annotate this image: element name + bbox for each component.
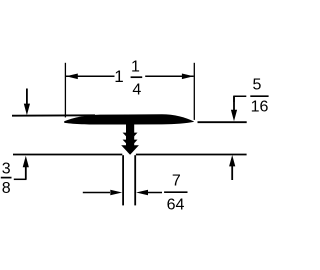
svg-text:7: 7 xyxy=(172,172,181,189)
7/64 left leader xyxy=(83,192,110,194)
7/64 right leader xyxy=(148,192,162,194)
barb stem neck xyxy=(126,123,134,149)
svg-text:1: 1 xyxy=(131,59,140,76)
lower panel line right xyxy=(136,154,247,156)
barb arrowhead tip xyxy=(121,145,139,155)
fraction bar 1/4 xyxy=(131,76,143,78)
3/8 up arrow xyxy=(25,167,27,179)
3/8 leader line xyxy=(14,178,27,180)
right panel surface line xyxy=(198,121,247,123)
svg-text:64: 64 xyxy=(167,197,185,214)
left slot wall xyxy=(122,155,124,205)
molding cap profile xyxy=(64,114,194,124)
barb 2 xyxy=(123,140,138,148)
fraction bar 3/8 xyxy=(1,177,12,179)
dimension arrowhead left xyxy=(66,74,78,80)
dimension line 1-1/4 left segment xyxy=(66,75,115,77)
svg-text:16: 16 xyxy=(251,99,269,116)
fraction bar 7/64 xyxy=(164,191,187,193)
svg-text:1: 1 xyxy=(114,67,123,86)
barb 1 xyxy=(123,133,138,141)
right slot wall xyxy=(134,155,136,205)
7/64 right arrow (points left) xyxy=(136,190,148,196)
lower panel line left xyxy=(13,154,122,156)
5/16 down arrow xyxy=(233,96,235,111)
7/64 left arrow (points right) xyxy=(110,190,122,196)
svg-text:5: 5 xyxy=(253,76,262,93)
5/16 up arrow xyxy=(231,166,233,180)
left panel surface line xyxy=(12,114,95,116)
svg-text:8: 8 xyxy=(2,180,11,197)
svg-text:3: 3 xyxy=(2,161,11,178)
dimension arrowhead right xyxy=(182,74,194,80)
5/16 leader line xyxy=(234,96,246,102)
dimension line 1-1/4 right segment xyxy=(145,75,194,77)
svg-text:4: 4 xyxy=(132,81,141,98)
fraction bar 5/16 xyxy=(250,95,268,97)
left extension line xyxy=(64,63,66,118)
right extension line xyxy=(193,63,195,120)
left 3/8 upper arrow (down) xyxy=(26,89,28,106)
